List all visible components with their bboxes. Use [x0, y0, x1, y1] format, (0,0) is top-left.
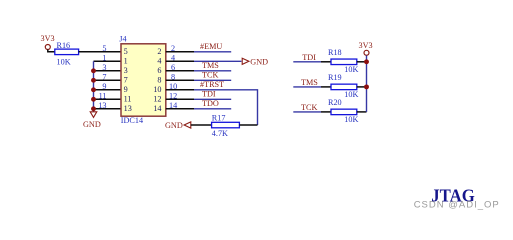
- ground GND (pin 4, arrow right): [242, 58, 268, 67]
- svg-text:TMS: TMS: [301, 78, 318, 87]
- svg-text:1: 1: [124, 56, 128, 65]
- wire pin1 stub (left): [94, 60, 122, 62]
- wire pin3 stub (left): [94, 70, 122, 72]
- resistor R17: [212, 113, 240, 138]
- wire pin8 stub (right): [166, 79, 194, 81]
- svg-text:5: 5: [124, 47, 128, 56]
- wire net #TRST (runs down to R17): [194, 90, 258, 125]
- svg-text:13: 13: [124, 104, 132, 113]
- svg-text:14: 14: [153, 104, 161, 113]
- wire R16 to pin 5: [79, 51, 121, 53]
- wire net TCK: [194, 79, 231, 81]
- svg-text:4: 4: [157, 56, 161, 65]
- svg-text:10K: 10K: [57, 57, 71, 66]
- svg-text:2: 2: [157, 47, 161, 56]
- svg-text:6: 6: [157, 66, 161, 75]
- resistor R16: [55, 41, 79, 66]
- svg-text:TDI: TDI: [202, 90, 216, 99]
- junction dot pin9 / ground bus: [91, 87, 96, 92]
- svg-text:10K: 10K: [344, 90, 358, 99]
- wire pin4 to GND: [194, 60, 241, 62]
- wire 3V3 to R16: [48, 50, 55, 52]
- wire R20 left pin: [321, 111, 331, 113]
- wire pin9 stub (left): [94, 89, 122, 91]
- svg-text:TDO: TDO: [202, 99, 219, 108]
- svg-text:3V3: 3V3: [359, 41, 373, 50]
- wire net TDI (right section): [293, 61, 321, 63]
- wire R18 left pin: [321, 61, 331, 63]
- connector J4 IDC14 (body): [119, 34, 166, 125]
- svg-text:TCK: TCK: [202, 71, 218, 80]
- ground GND (bottom left, arrow down): [83, 112, 101, 129]
- svg-text:J4: J4: [119, 34, 126, 43]
- junction dot pin13 / ground bus: [91, 106, 96, 111]
- wire pin14 stub (right): [166, 108, 194, 110]
- svg-text:R20: R20: [328, 98, 342, 107]
- svg-text:GND: GND: [83, 120, 101, 129]
- svg-text:8: 8: [157, 75, 161, 84]
- svg-text:1: 1: [102, 53, 106, 62]
- wire net TDO: [194, 108, 231, 110]
- svg-text:R16: R16: [57, 41, 71, 50]
- svg-text:9: 9: [102, 82, 106, 91]
- wire net TMS: [194, 70, 231, 72]
- resistor R20: [328, 98, 358, 124]
- power flag 3V3 (right): [359, 41, 373, 55]
- wire pin7 stub (left): [94, 79, 122, 81]
- svg-text:R18: R18: [328, 48, 342, 57]
- wire GND to R17: [191, 124, 212, 126]
- svg-text:TDI: TDI: [302, 53, 316, 62]
- wire pin2 stub (right): [166, 51, 194, 53]
- svg-text:10K: 10K: [344, 115, 358, 124]
- svg-text:7: 7: [124, 75, 128, 84]
- wire pin11 stub (left): [94, 98, 122, 100]
- svg-text:3: 3: [124, 66, 128, 75]
- wire net TMS (right section): [293, 86, 321, 88]
- svg-text:7: 7: [102, 72, 106, 81]
- svg-text:IDC14: IDC14: [121, 116, 143, 125]
- svg-text:TMS: TMS: [202, 61, 219, 70]
- svg-text:R17: R17: [212, 113, 226, 122]
- junction dot pin11 / ground bus: [91, 97, 96, 102]
- svg-text:3V3: 3V3: [41, 34, 55, 43]
- svg-text:GND: GND: [165, 121, 183, 130]
- wire R20 right pin: [357, 111, 367, 113]
- svg-text:3: 3: [102, 63, 106, 72]
- junction dot R18 / 3V3 bus: [364, 59, 369, 64]
- resistor R18: [328, 48, 358, 74]
- ground GND (left of R17, arrow left): [165, 121, 191, 130]
- power flag 3V3 (left): [41, 34, 55, 50]
- svg-text:TCK: TCK: [301, 103, 317, 112]
- wire ground bus (vertical, left): [93, 61, 95, 112]
- wire 3V3 bus (vertical, right): [366, 55, 368, 112]
- wire pin10 stub (right): [166, 89, 194, 91]
- wire R19 right pin: [357, 86, 367, 88]
- wire pin13 stub (left): [94, 108, 122, 110]
- svg-text:#TRST: #TRST: [200, 80, 224, 89]
- wire pin4 stub (right): [166, 60, 194, 62]
- svg-text:11: 11: [99, 91, 107, 100]
- svg-text:GND: GND: [250, 58, 268, 67]
- wire pin12 stub (right): [166, 98, 194, 100]
- wire R19 left pin: [321, 86, 331, 88]
- junction dot pin7 / ground bus: [91, 78, 96, 83]
- svg-text:5: 5: [102, 44, 106, 53]
- resistor R19: [328, 73, 358, 99]
- svg-text:10: 10: [153, 85, 161, 94]
- wire R18 right pin: [357, 61, 367, 63]
- wire net TCK (right section): [293, 111, 321, 113]
- wire pin6 stub (right): [166, 70, 194, 72]
- svg-text:CSDN @ADI_OP: CSDN @ADI_OP: [414, 200, 500, 211]
- wire R17 to #TRST corner: [239, 124, 257, 126]
- wire net TDI: [194, 98, 231, 100]
- svg-text:#EMU: #EMU: [200, 42, 222, 51]
- junction dot pin3 / ground bus: [91, 68, 96, 73]
- svg-text:4.7K: 4.7K: [212, 129, 228, 138]
- svg-text:R19: R19: [328, 73, 342, 82]
- svg-text:13: 13: [98, 101, 106, 110]
- svg-text:9: 9: [124, 85, 128, 94]
- svg-text:11: 11: [124, 94, 132, 103]
- junction dot R19 / 3V3 bus: [364, 84, 369, 89]
- svg-text:10K: 10K: [344, 65, 358, 74]
- svg-text:12: 12: [153, 94, 161, 103]
- wire net #EMU: [194, 51, 231, 53]
